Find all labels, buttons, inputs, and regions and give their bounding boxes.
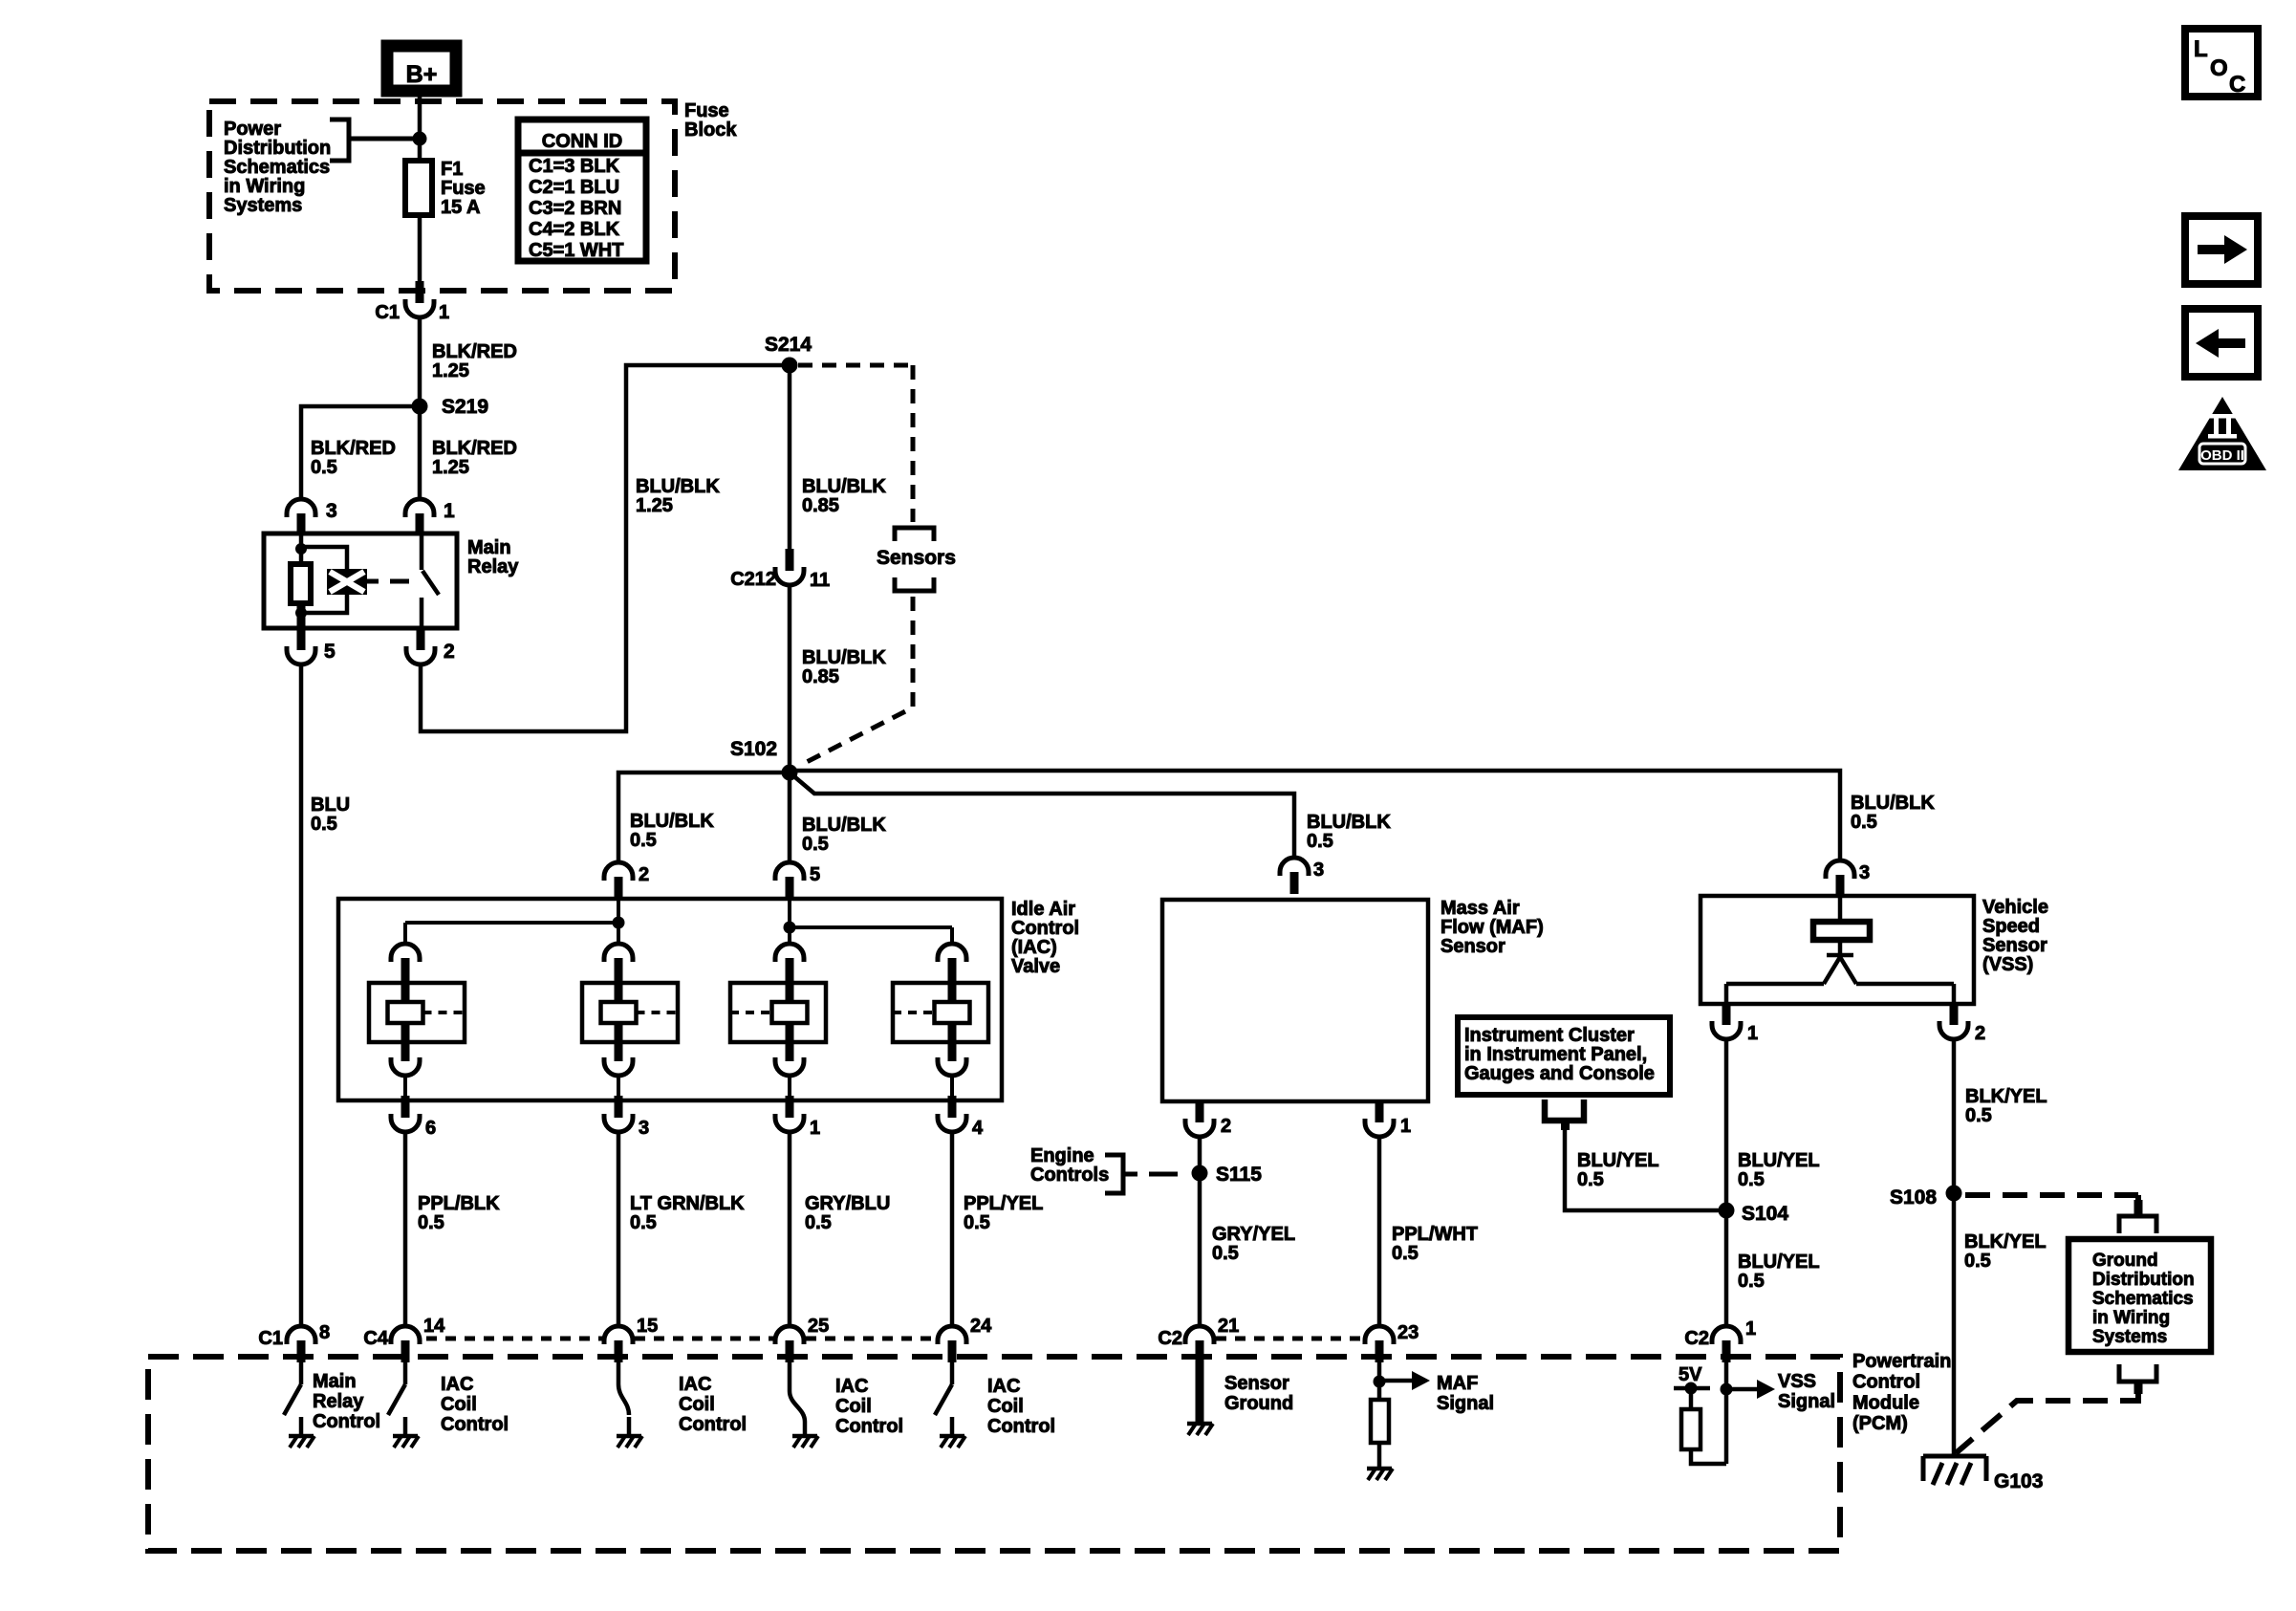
svg-text:Flow (MAF): Flow (MAF) (1440, 917, 1544, 938)
connector pin 25 PCM (775, 1326, 804, 1362)
svg-text:Control: Control (441, 1414, 509, 1435)
svg-text:Main: Main (467, 537, 511, 558)
ground distribution note box (2069, 1239, 2211, 1352)
wire cluster to S104 BLU/YEL 0.5 (1565, 1130, 1719, 1210)
connector pin 2 main relay (406, 628, 435, 664)
svg-text:in Wiring: in Wiring (224, 176, 305, 197)
svg-text:C4: C4 (363, 1328, 388, 1349)
svg-text:2: 2 (1221, 1116, 1231, 1137)
connector pin 3 VSS (1826, 860, 1854, 897)
svg-text:3: 3 (326, 500, 337, 522)
OBD II triangle icon (2178, 397, 2266, 470)
svg-text:(PCM): (PCM) (1852, 1413, 1908, 1434)
svg-text:0.5: 0.5 (1851, 812, 1877, 833)
sensors component brackets (895, 528, 934, 541)
svg-text:L: L (2194, 36, 2208, 62)
svg-text:S214: S214 (765, 334, 812, 356)
svg-text:0.5: 0.5 (418, 1212, 444, 1233)
svg-text:5: 5 (324, 641, 336, 663)
connector row dotted line (426, 1337, 602, 1341)
svg-text:0.5: 0.5 (1738, 1169, 1765, 1190)
svg-text:Relay: Relay (313, 1391, 364, 1412)
svg-text:Signal: Signal (1778, 1391, 1835, 1412)
svg-text:Speed: Speed (1982, 916, 2040, 937)
wire relay pin2 to S214 BLU/BLK 1.25 (421, 365, 786, 731)
svg-text:Fuse: Fuse (441, 178, 486, 199)
splice S219 (412, 399, 428, 415)
wire MAF pin2 to C2-21 GRY/YEL 0.5 (1198, 1136, 1202, 1327)
svg-text:0.5: 0.5 (630, 1212, 657, 1233)
dashed wire S214 to Sensors (798, 363, 913, 368)
MAF signal node (1377, 1362, 1382, 1400)
svg-text:Coil: Coil (835, 1396, 872, 1417)
wire C212 to S102 BLU/BLK 0.85 (788, 584, 792, 773)
svg-text:8: 8 (319, 1322, 330, 1343)
svg-text:IAC: IAC (679, 1374, 711, 1395)
svg-text:IAC: IAC (441, 1374, 473, 1395)
svg-text:S115: S115 (1216, 1164, 1262, 1186)
svg-text:0.5: 0.5 (964, 1212, 990, 1233)
svg-text:1: 1 (1747, 1023, 1758, 1044)
svg-text:Engine: Engine (1030, 1145, 1094, 1166)
VSS signal node with 5V pullup (1724, 1362, 1729, 1464)
wire bracket to B+ feed (349, 137, 420, 142)
svg-text:S219: S219 (442, 396, 488, 418)
svg-text:0.5: 0.5 (630, 830, 657, 851)
svg-text:C: C (2229, 72, 2245, 98)
relay switch (420, 533, 424, 570)
wire VSS pin1 to C2-1 BLU/YEL 0.5 (1724, 1038, 1729, 1327)
wire BLU 0.5 relay pin5 to PCM C1-8 (299, 664, 304, 1327)
connector C1 pin 8 PCM (287, 1326, 315, 1362)
svg-text:BLK/RED: BLK/RED (432, 341, 517, 362)
connector C212 pin 11 (775, 549, 804, 585)
svg-text:23: 23 (1397, 1322, 1419, 1343)
svg-text:2: 2 (639, 864, 649, 885)
svg-text:C3=2 BRN: C3=2 BRN (529, 198, 621, 219)
svg-text:Coil: Coil (441, 1394, 477, 1415)
svg-text:2: 2 (1975, 1023, 1985, 1044)
svg-text:Relay: Relay (467, 556, 519, 577)
connector pin 2 IAC valve (604, 862, 633, 899)
splice S104 (1719, 1203, 1735, 1219)
connector pin 1 main relay (405, 499, 434, 535)
wire B+ to fuse F1 (418, 91, 422, 161)
svg-text:BLU/BLK: BLU/BLK (1851, 793, 1935, 814)
svg-text:S102: S102 (730, 738, 777, 760)
splice S108 (1946, 1186, 1962, 1202)
svg-text:C2: C2 (1684, 1328, 1709, 1349)
svg-text:IAC: IAC (835, 1376, 868, 1397)
svg-text:Gauges and Console: Gauges and Console (1464, 1063, 1655, 1084)
svg-text:0.5: 0.5 (1212, 1243, 1239, 1264)
svg-text:0.5: 0.5 (1964, 1251, 1991, 1272)
connector pin 5 main relay (297, 606, 306, 628)
svg-text:0.85: 0.85 (802, 495, 839, 516)
svg-text:3: 3 (639, 1118, 649, 1139)
svg-text:0.5: 0.5 (1577, 1169, 1604, 1190)
svg-text:PPL/BLK: PPL/BLK (418, 1193, 500, 1214)
CONN ID table (518, 120, 646, 261)
svg-text:Control: Control (313, 1411, 380, 1432)
svg-text:C212: C212 (730, 569, 776, 590)
svg-text:C5=1 WHT: C5=1 WHT (529, 240, 623, 261)
forward arrow icon (2185, 216, 2258, 284)
IAC coil column pin 6 (391, 944, 420, 980)
svg-text:1.25: 1.25 (636, 495, 673, 516)
svg-text:0.5: 0.5 (1392, 1243, 1419, 1264)
wire S102 to VSS pin3 BLU/BLK 0.5 (790, 771, 1840, 860)
instrument cluster bracket (1545, 1099, 1584, 1121)
wire S102 to MAF pin3 BLU/BLK 0.5 (790, 773, 1294, 858)
svg-text:O: O (2210, 55, 2228, 81)
VSS box (1700, 896, 1974, 1004)
svg-text:Sensor: Sensor (1224, 1373, 1289, 1394)
svg-text:Schematics: Schematics (2092, 1289, 2194, 1309)
svg-text:0.85: 0.85 (802, 666, 839, 687)
svg-text:Control: Control (987, 1416, 1055, 1437)
connector C2 pin 1 PCM (1712, 1326, 1741, 1362)
svg-text:Ground: Ground (1224, 1393, 1293, 1414)
svg-text:S104: S104 (1742, 1203, 1788, 1225)
fuse block dashed boundary (209, 101, 675, 291)
IAC internal feed line left (405, 921, 618, 925)
svg-text:in Instrument Panel,: in Instrument Panel, (1464, 1044, 1647, 1065)
svg-text:Sensors: Sensors (877, 547, 956, 569)
svg-text:21: 21 (1218, 1316, 1239, 1337)
IAC coil control switch 24 (950, 1362, 955, 1384)
svg-text:Controls: Controls (1030, 1165, 1109, 1186)
svg-text:BLK/YEL: BLK/YEL (1964, 1231, 2047, 1252)
svg-text:CONN ID: CONN ID (542, 131, 622, 152)
svg-text:BLU/BLK: BLU/BLK (1307, 812, 1391, 833)
svg-text:Distribution: Distribution (2092, 1270, 2195, 1290)
svg-text:S108: S108 (1890, 1186, 1937, 1208)
svg-text:BLU/YEL: BLU/YEL (1738, 1252, 1820, 1273)
svg-text:BLU/BLK: BLU/BLK (636, 476, 720, 497)
MAF pin 1 connector (1375, 1101, 1384, 1122)
svg-text:Sensor: Sensor (1440, 936, 1505, 957)
IAC coil column pin 3 (604, 944, 633, 980)
relay actuator dashed link (367, 579, 379, 584)
svg-text:Powertrain: Powertrain (1852, 1351, 1951, 1372)
svg-text:0.5: 0.5 (805, 1212, 832, 1233)
svg-text:BLU/BLK: BLU/BLK (630, 811, 714, 832)
ground distribution top bracket (2119, 1216, 2156, 1233)
svg-text:Systems: Systems (224, 195, 302, 216)
svg-text:3: 3 (1313, 860, 1324, 881)
ground G103 (1923, 1456, 1986, 1485)
svg-text:0.5: 0.5 (802, 834, 829, 855)
dashed link ground distribution to G103 (1956, 1394, 2138, 1453)
wire IAC pin1 to PCM 25 GRY/BLU 0.5 (788, 1131, 792, 1327)
svg-text:Control: Control (1852, 1372, 1920, 1393)
svg-text:0.5: 0.5 (311, 457, 337, 478)
svg-text:Mass Air: Mass Air (1440, 898, 1520, 919)
connector pin 15 PCM (604, 1326, 633, 1362)
svg-text:Valve: Valve (1011, 956, 1060, 977)
wire IAC pin3 to PCM 15 LT GRN/BLK 0.5 (617, 1131, 621, 1327)
IAC internal feed line right (790, 925, 952, 929)
wire S108 to G103 BLK/YEL 0.5 (1952, 1193, 1957, 1456)
svg-text:3: 3 (1859, 862, 1870, 883)
svg-text:BLK/YEL: BLK/YEL (1965, 1086, 2047, 1107)
svg-text:0.5: 0.5 (311, 814, 337, 835)
IAC coil control switch C4-14 (403, 1362, 408, 1384)
svg-text:Fuse: Fuse (684, 100, 729, 121)
battery feed B+ terminal (387, 46, 456, 91)
svg-text:IAC: IAC (987, 1376, 1020, 1397)
svg-text:G103: G103 (1994, 1470, 2043, 1492)
LOC legend box (2185, 29, 2258, 97)
svg-text:BLU/YEL: BLU/YEL (1738, 1150, 1820, 1171)
svg-text:1: 1 (444, 500, 455, 522)
splice S102 (782, 765, 798, 781)
svg-text:24: 24 (970, 1316, 992, 1337)
main relay box (264, 533, 457, 628)
svg-text:Systems: Systems (2092, 1327, 2167, 1347)
svg-text:in Wiring: in Wiring (2092, 1308, 2170, 1328)
svg-text:1: 1 (439, 302, 449, 323)
svg-text:15: 15 (637, 1316, 658, 1337)
svg-text:Block: Block (684, 120, 737, 141)
svg-text:F1: F1 (441, 159, 463, 180)
svg-text:4: 4 (972, 1118, 984, 1139)
svg-text:14: 14 (423, 1316, 445, 1337)
connector C4 pin 14 PCM (391, 1326, 420, 1362)
PCM dashed boundary (148, 1357, 1840, 1551)
wire S214 to C212 BLU/BLK 0.85 (788, 365, 792, 549)
svg-text:GRY/YEL: GRY/YEL (1212, 1224, 1295, 1245)
ground distribution bottom bracket (2119, 1364, 2156, 1382)
wire S219 left branch BLK/RED 0.5 (301, 406, 420, 499)
connector pin 3 MAF (1280, 858, 1309, 894)
svg-text:Main: Main (313, 1371, 357, 1392)
wire IAC pin6 to PCM C4-14 PPL/BLK 0.5 (403, 1131, 408, 1327)
svg-text:11: 11 (810, 570, 830, 591)
svg-text:C1: C1 (375, 302, 400, 323)
svg-text:(VSS): (VSS) (1982, 954, 2033, 975)
relay coil (box with X) (327, 569, 367, 595)
wire S102 to IAC pin2 BLU/BLK 0.5 (618, 773, 790, 862)
svg-text:6: 6 (425, 1118, 436, 1139)
wire S219 down branch BLK/RED 1.25 (418, 406, 422, 499)
node splice on B+ feed (413, 132, 427, 146)
svg-text:1: 1 (810, 1118, 820, 1139)
main relay control switch and ground (299, 1362, 304, 1384)
svg-text:25: 25 (808, 1316, 829, 1337)
MAF sensor box (1162, 900, 1428, 1101)
splice S115 (1192, 1165, 1208, 1182)
svg-text:OBD II: OBD II (2200, 447, 2244, 464)
svg-text:PPL/WHT: PPL/WHT (1392, 1224, 1478, 1245)
relay resistor (291, 564, 311, 603)
svg-text:Control: Control (1011, 918, 1079, 939)
svg-text:C1=3 BLK: C1=3 BLK (529, 156, 620, 177)
relay coil branch wires (299, 533, 304, 564)
connector pin 3 main relay (287, 499, 315, 535)
svg-text:Control: Control (679, 1414, 747, 1435)
MAF pin 2 connector (1196, 1101, 1204, 1122)
svg-text:Control: Control (835, 1416, 903, 1437)
VSS pin 2 connector (1950, 1004, 1959, 1025)
IAC coil column pin 1 (775, 944, 804, 980)
VSS pin 1 connector (1722, 1004, 1731, 1025)
MAF signal pull resistor (1371, 1400, 1389, 1443)
connector pin 5 IAC valve (775, 862, 804, 899)
svg-text:5: 5 (810, 864, 820, 885)
svg-text:(IAC): (IAC) (1011, 937, 1057, 958)
svg-text:0.5: 0.5 (1965, 1105, 1992, 1126)
wire fuse to connector C1 (418, 215, 422, 283)
svg-text:0.5: 0.5 (1738, 1271, 1765, 1292)
svg-text:LT GRN/BLK: LT GRN/BLK (630, 1193, 745, 1214)
svg-text:Instrument Cluster: Instrument Cluster (1464, 1025, 1635, 1046)
power distribution bracket (330, 120, 349, 161)
back arrow icon (2185, 309, 2258, 377)
svg-text:1: 1 (1745, 1318, 1756, 1339)
wire S102 to IAC pin5 BLU/BLK 0.5 (788, 773, 792, 862)
svg-text:Power: Power (224, 119, 281, 140)
svg-text:0.5: 0.5 (1307, 831, 1333, 852)
svg-text:BLK/RED: BLK/RED (311, 438, 396, 459)
svg-text:2: 2 (444, 641, 455, 663)
svg-text:Ground: Ground (2092, 1251, 2158, 1271)
svg-text:Distribution: Distribution (224, 138, 331, 159)
svg-text:VSS: VSS (1778, 1371, 1816, 1392)
svg-text:1: 1 (1400, 1116, 1411, 1137)
svg-text:C4=2 BLK: C4=2 BLK (529, 219, 620, 240)
svg-text:BLU/BLK: BLU/BLK (802, 815, 886, 836)
IAC coil control switch 15 (617, 1362, 621, 1384)
IAC valve box (338, 899, 1002, 1100)
svg-text:B+: B+ (406, 61, 438, 88)
svg-text:Module: Module (1852, 1392, 1919, 1413)
svg-text:Coil: Coil (987, 1396, 1024, 1417)
wire IAC pin4 to PCM 24 PPL/YEL 0.5 (950, 1131, 955, 1327)
splice S214 (782, 358, 798, 374)
instrument cluster box (1458, 1017, 1670, 1095)
svg-text:1.25: 1.25 (432, 360, 469, 381)
svg-text:C1: C1 (258, 1328, 283, 1349)
IAC coil column pin 4 (938, 944, 966, 980)
svg-text:Coil: Coil (679, 1394, 715, 1415)
svg-text:PPL/YEL: PPL/YEL (964, 1193, 1043, 1214)
connector C2 pin 21 PCM (1185, 1326, 1214, 1362)
svg-text:MAF: MAF (1437, 1373, 1478, 1394)
svg-text:BLK/RED: BLK/RED (432, 438, 517, 459)
svg-text:C2=1 BLU: C2=1 BLU (529, 177, 619, 198)
svg-text:Schematics: Schematics (224, 157, 330, 178)
wire VSS pin2 to S108 BLK/YEL 0.5 (1952, 1038, 1957, 1193)
svg-text:C2: C2 (1158, 1328, 1182, 1349)
svg-text:15 A: 15 A (441, 197, 481, 218)
svg-text:BLU/BLK: BLU/BLK (802, 647, 886, 668)
connector C1 pin 1 at fuse block (405, 281, 434, 317)
fuse F1 15A (405, 161, 432, 215)
svg-text:BLU: BLU (311, 795, 350, 816)
connector pin 23 PCM (1365, 1326, 1394, 1362)
svg-text:Idle Air: Idle Air (1011, 899, 1075, 920)
IAC coil control switch 25 (788, 1362, 792, 1391)
svg-text:1.25: 1.25 (432, 457, 469, 478)
svg-text:BLU/YEL: BLU/YEL (1577, 1150, 1659, 1171)
svg-text:Signal: Signal (1437, 1393, 1494, 1414)
svg-text:Sensor: Sensor (1982, 935, 2047, 956)
VSS internal pickup symbol (1838, 896, 1843, 922)
svg-text:Vehicle: Vehicle (1982, 897, 2048, 918)
wire C1-1 to splice S219 BLK/RED 1.25 (418, 316, 422, 406)
svg-text:BLU/BLK: BLU/BLK (802, 476, 886, 497)
wire MAF pin1 to 23 PPL/WHT 0.5 (1377, 1136, 1382, 1327)
sensor ground lead (1196, 1342, 1204, 1422)
svg-text:GRY/BLU: GRY/BLU (805, 1193, 890, 1214)
dashed link S108 to ground distribution (1965, 1192, 2138, 1198)
dashed wire Sensors to S102 (801, 597, 913, 765)
connector pin 24 PCM (938, 1326, 966, 1362)
